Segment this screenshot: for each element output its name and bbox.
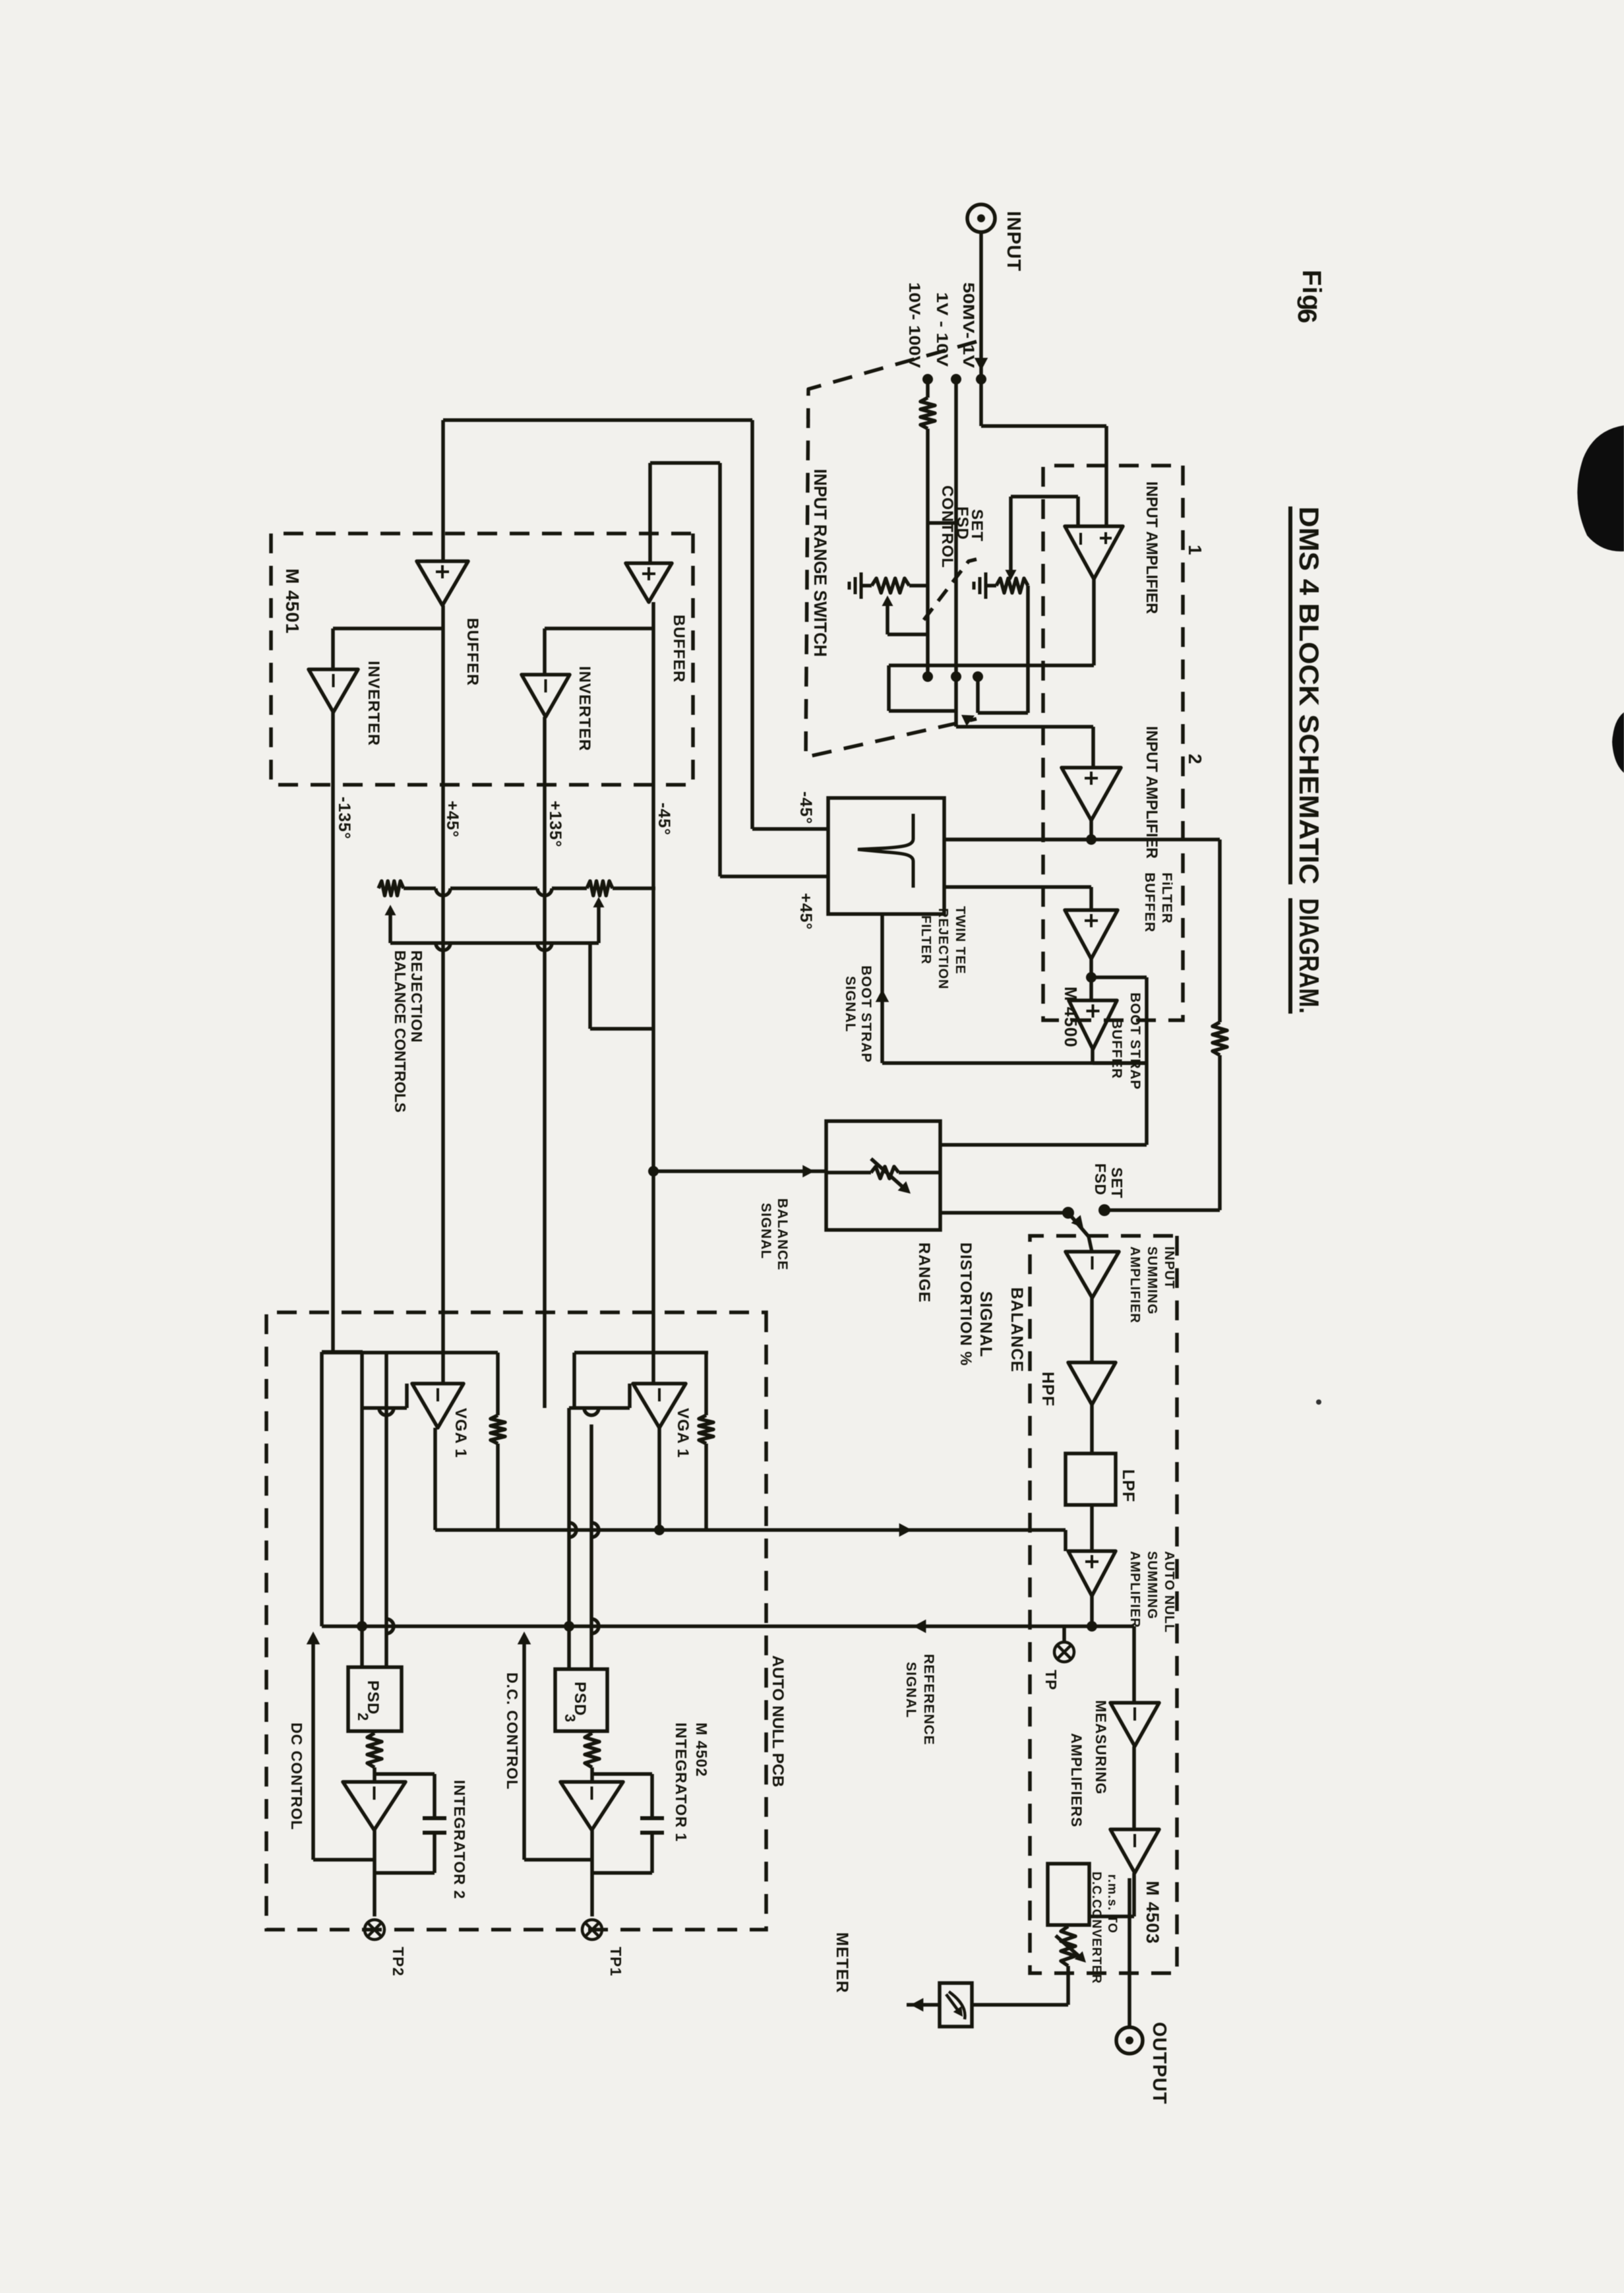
svg-text:+45°: +45° <box>443 801 462 838</box>
svg-text:INPUT: INPUT <box>1003 211 1024 272</box>
wire -135 row <box>331 712 335 1353</box>
svg-text:INVERTER: INVERTER <box>365 661 382 746</box>
wire wiper bus <box>390 941 599 945</box>
wire vga1b loop top <box>704 1353 708 1415</box>
op-amp AUTO NULL SUMMING AMPLIFIER <box>1068 1551 1116 1596</box>
arrow dc control 2 <box>307 1632 320 1644</box>
wire distortion to boot strap rail <box>940 1143 1147 1147</box>
svg-text:2: 2 <box>355 1713 371 1721</box>
wire pot line top <box>613 886 655 890</box>
wire int2 output <box>373 1830 376 1916</box>
scan blob artifact <box>1577 425 1624 551</box>
svg-text:AMPLIFIER: AMPLIFIER <box>1128 1551 1142 1628</box>
wire int1 dc control <box>522 1636 526 1860</box>
svg-text:SUMMING: SUMMING <box>1145 1551 1159 1620</box>
hop wiper bus over +135 <box>537 943 552 950</box>
op-amp INPUT AMPLIFIER 2 <box>1062 768 1121 820</box>
svg-text:BALANCE: BALANCE <box>775 1198 790 1271</box>
svg-text:BUFFER: BUFFER <box>464 618 481 686</box>
wire var resistor top <box>899 1171 940 1175</box>
svg-text:HPF: HPF <box>1038 1372 1057 1407</box>
wire feedback down <box>978 711 1028 715</box>
wire vga1a loop top <box>496 1353 500 1415</box>
ground pot1 <box>861 584 872 588</box>
box RMS TO DC CONVERTER <box>1048 1864 1089 1925</box>
wire pot line mid 1 <box>552 886 587 890</box>
op-amp BUFFER 2 <box>626 563 672 602</box>
svg-text:VGA 1: VGA 1 <box>674 1408 692 1458</box>
wire TP stem <box>1062 1626 1066 1642</box>
svg-text:VGA 1: VGA 1 <box>452 1408 469 1458</box>
dashed linkage switch <box>924 559 977 620</box>
scan speck <box>1316 1399 1321 1405</box>
op-amp INPUT SUMMING AMPLIFIER <box>1066 1252 1119 1298</box>
svg-text:BUFFER: BUFFER <box>1142 872 1157 932</box>
capacitor int1 plate 1 <box>640 1816 664 1820</box>
wire wiper B <box>597 901 601 943</box>
svg-text:INPUT RANGE SWITCH: INPUT RANGE SWITCH <box>810 469 830 657</box>
svg-text:TP1: TP1 <box>607 1947 624 1976</box>
wire int2 cap loop left <box>375 1772 435 1776</box>
wire vga1b fb to balance <box>704 1444 708 1530</box>
svg-text:AMPLIFIER: AMPLIFIER <box>1128 1246 1142 1324</box>
resistor psd2 to integrator2 <box>367 1733 382 1767</box>
contact 50MV-1V deck1 <box>976 374 986 384</box>
title underline 1 <box>1288 506 1292 884</box>
wire into measuring amp 1 <box>1132 1626 1136 1703</box>
wire balance into summing amp <box>1064 1530 1068 1551</box>
hop wiper bus over +45 <box>436 943 450 950</box>
svg-text:AUTO NULL PCB: AUTO NULL PCB <box>769 1655 787 1787</box>
wire psd2 feed lower <box>360 1353 364 1667</box>
wire divider join <box>928 521 956 525</box>
op-amp INVERTER 1 <box>309 669 358 712</box>
wire psd3 feed lower <box>567 1408 571 1669</box>
op-amp BUFFER 1 <box>417 561 468 605</box>
svg-text:INPUT AMPLIFIER: INPUT AMPLIFIER <box>1143 481 1160 614</box>
svg-text:MEASURING: MEASURING <box>1093 1700 1109 1794</box>
box PSD2 <box>348 1667 402 1731</box>
wire vga1b loop bottom <box>572 1353 576 1408</box>
svg-text:+135°: +135° <box>546 801 564 847</box>
svg-text:DIAGRAM.: DIAGRAM. <box>1294 898 1325 1014</box>
wire int2 dc control <box>311 1636 315 1860</box>
wire pot1 wiper <box>886 600 889 634</box>
wire +45 into twin tee <box>720 874 828 878</box>
wire -45 into twin tee <box>752 827 828 831</box>
wire to rms converter <box>1132 1873 1136 1916</box>
arrow switch blade <box>1071 1215 1084 1228</box>
op-amp FILTER BUFFER <box>1065 910 1118 959</box>
svg-text:50MV- 1V: 50MV- 1V <box>959 282 977 368</box>
svg-text:INTEGRATOR 1: INTEGRATOR 1 <box>673 1723 690 1842</box>
potentiometer rejection balance B <box>587 881 613 896</box>
wire 10V-100V rail <box>926 429 930 677</box>
wire input contact to elbow <box>979 379 983 426</box>
wire link riser <box>590 1027 653 1031</box>
switch blade SET FSD <box>1068 1213 1092 1252</box>
junction psd3 feed reference <box>564 1621 574 1632</box>
wire vga1b loop left <box>574 1351 708 1355</box>
op-amp MEASURING AMPLIFIER 1 <box>1110 1703 1159 1746</box>
svg-text:6: 6 <box>1292 309 1321 324</box>
wire +45 riser from buffer2 <box>650 461 720 465</box>
notch response symbol <box>858 814 913 888</box>
wire main bus vertical <box>944 838 1220 841</box>
svg-text:-45°: -45° <box>655 803 673 836</box>
wire inverter2 tap <box>545 627 653 630</box>
wire to deck2 contact a <box>976 677 980 713</box>
svg-text:DISTORTION %: DISTORTION % <box>957 1242 975 1366</box>
wire lpf to auto null summing <box>1090 1505 1094 1551</box>
wire int2 cap loop right <box>375 1871 435 1875</box>
meter needle <box>949 1992 965 2019</box>
wire summing to hpf <box>1090 1298 1094 1362</box>
svg-text:SET: SET <box>1108 1167 1126 1199</box>
junction -45 row tap <box>648 1166 659 1177</box>
dashed box INPUT RANGE SWITCH <box>806 342 977 757</box>
svg-text:PSD: PSD <box>364 1680 382 1715</box>
wire to amp1 - input <box>1076 497 1080 526</box>
arrow meter out <box>911 1998 923 2012</box>
potentiometer rejection balance A <box>378 881 404 896</box>
svg-text:LPF: LPF <box>1119 1469 1137 1502</box>
svg-text:D.C.CONVERTER: D.C.CONVERTER <box>1089 1872 1103 1984</box>
svg-text:DC CONTROL: DC CONTROL <box>288 1723 305 1830</box>
wire vga1a second input <box>405 1384 409 1408</box>
wire vga1b second input drop <box>569 1406 630 1410</box>
svg-text:M 4501: M 4501 <box>282 568 303 634</box>
arrow balance signal <box>899 1523 912 1537</box>
svg-text:1: 1 <box>1185 545 1205 556</box>
wire -45 row <box>651 602 655 1384</box>
svg-text:REFERENCE: REFERENCE <box>921 1654 936 1746</box>
wire int1 cap loop right <box>592 1871 652 1875</box>
wire rail to SET FSD contact <box>1104 1208 1220 1212</box>
wire amp1 output down <box>889 663 1094 667</box>
svg-text:BOOT STRAP: BOOT STRAP <box>858 965 874 1063</box>
wire into integrator1 <box>590 1767 594 1782</box>
wire into inverter2 <box>543 628 547 675</box>
ground pot2 <box>986 584 996 588</box>
svg-text:SIGNAL: SIGNAL <box>843 976 858 1032</box>
contact deck2 c <box>922 671 933 682</box>
wire buffer2 input <box>648 463 652 563</box>
wire BOOT STRAP SIGNAL <box>880 915 884 1063</box>
wiper meter cal <box>1056 1936 1083 1960</box>
svg-text:-45°: -45° <box>797 791 815 824</box>
wire inverter1 tap <box>333 627 443 630</box>
svg-text:10V- 100V: 10V- 100V <box>905 282 923 368</box>
wire vga1a second input drop <box>362 1406 407 1410</box>
arrow into distortion box <box>802 1165 814 1178</box>
junction vga1b output on balance <box>654 1525 665 1535</box>
test point TP1 <box>582 1920 602 1940</box>
svg-text:Fig: Fig <box>1297 270 1326 311</box>
title underline 2 <box>1288 898 1292 1014</box>
svg-text:SUMMING: SUMMING <box>1145 1246 1159 1315</box>
wire buffer1 input <box>441 420 445 561</box>
svg-text:-135°: -135° <box>335 797 353 840</box>
svg-text:2: 2 <box>1185 754 1205 765</box>
connector INPUT jack <box>967 204 995 232</box>
contact deck2 a <box>973 671 983 682</box>
variable resistor distortion <box>871 1167 899 1178</box>
svg-text:TP: TP <box>1042 1670 1060 1690</box>
wire vga1a output <box>433 1428 437 1530</box>
svg-text:AMPLIFIERS: AMPLIFIERS <box>1068 1733 1085 1827</box>
op-amp HPF <box>1068 1362 1116 1405</box>
svg-text:FSD: FSD <box>953 506 971 540</box>
svg-text:TWIN TEE: TWIN TEE <box>953 906 967 975</box>
wire amp2 output <box>1089 820 1093 840</box>
svg-text:SIGNAL: SIGNAL <box>977 1291 995 1357</box>
contact 1V-10V deck1 <box>951 374 961 384</box>
wire hpf to lpf <box>1090 1405 1094 1453</box>
wire var resistor bottom <box>826 1171 871 1175</box>
wire into inverter1 <box>331 628 335 669</box>
box LPF <box>1066 1453 1116 1505</box>
arrow on input wire <box>975 358 988 371</box>
wire balance feed to distortion box <box>653 1169 826 1173</box>
wire into rms box <box>1089 1914 1134 1918</box>
dashed box M4500 <box>1043 466 1183 1020</box>
wire twin tee lower output <box>944 885 1091 889</box>
test point TP2 <box>365 1920 384 1940</box>
svg-text:BUFFER: BUFFER <box>1109 1019 1124 1079</box>
wire int1 cap loop left <box>592 1772 652 1776</box>
box PSD3 <box>555 1669 607 1731</box>
op-amp INTEGRATOR 2 <box>343 1782 406 1830</box>
svg-text:PSD: PSD <box>571 1682 589 1716</box>
svg-text:3: 3 <box>562 1714 578 1723</box>
op-amp BOOT STRAP BUFFER <box>1069 1000 1117 1049</box>
svg-text:TP2: TP2 <box>390 1947 407 1976</box>
op-amp VGA1 b <box>633 1384 686 1428</box>
wire meter out <box>907 2003 940 2007</box>
junction amp2 output bus <box>1086 834 1097 845</box>
svg-text:1V - 10V: 1V - 10V <box>933 292 951 367</box>
svg-text:SIGNAL: SIGNAL <box>903 1662 918 1718</box>
wire into integrator2 <box>373 1767 376 1782</box>
wire meter drop <box>972 2003 1068 2007</box>
wire vga1b second input <box>628 1384 632 1408</box>
wire int2 dc control drop <box>313 1858 375 1862</box>
svg-text:RANGE: RANGE <box>915 1242 933 1303</box>
wire -45 long horizontal <box>750 420 754 829</box>
svg-text:BALANCE CONTROLS: BALANCE CONTROLS <box>392 950 409 1113</box>
potentiometer SET FSD CONTROL 2 <box>996 578 1028 593</box>
wire feedback rail left <box>1218 840 1222 1022</box>
svg-text:REJECTION: REJECTION <box>408 950 425 1043</box>
hop psd3 feed over reference <box>591 1619 599 1634</box>
wire pot line mid 3 <box>404 886 436 890</box>
wire summing output <box>1090 1596 1094 1626</box>
wire psd3 feed upper <box>589 1424 593 1669</box>
wire int2 cap loop top b <box>433 1833 436 1873</box>
dashed box M4503 main chain <box>1030 1236 1177 1973</box>
svg-text:FiLTER: FiLTER <box>1159 872 1174 924</box>
arrow pot1 wiper <box>882 596 893 606</box>
svg-text:r.m.s. TO: r.m.s. TO <box>1105 1874 1119 1934</box>
contact 10V-100V deck1 <box>922 374 933 384</box>
resistor vga1a feedback <box>491 1415 505 1444</box>
wire boot strap output <box>1091 1049 1095 1063</box>
capacitor int1 plate 2 <box>640 1831 664 1835</box>
wire pot line mid 2 <box>450 886 537 890</box>
wire wiper A <box>388 910 392 943</box>
hop psd2 feed over reference <box>386 1619 394 1634</box>
wire reference bottom leg <box>320 1352 324 1626</box>
svg-text:METER: METER <box>833 1932 851 1994</box>
hop pot line over +135 <box>537 888 552 896</box>
wire OUTPUT <box>1128 1878 1131 2028</box>
resistor meter cal <box>1061 1926 1075 1966</box>
box METER <box>940 1983 972 2027</box>
wire +135 row <box>543 717 547 1408</box>
op-amp INVERTER 2 <box>522 675 570 717</box>
junction reference tap <box>1087 1621 1097 1632</box>
wire boot strap junction riser <box>1091 975 1147 979</box>
op-amp MEASURING AMPLIFIER 2 <box>1110 1829 1159 1873</box>
wire filter buffer to boot strap buffer <box>1089 959 1093 1000</box>
dashed box AUTO NULL PCB <box>266 1312 766 1930</box>
arrow reference signal <box>913 1620 926 1634</box>
hop vga1a input over psd2 feed <box>379 1408 394 1415</box>
svg-text:D.C. CONTROL: D.C. CONTROL <box>504 1672 521 1790</box>
wire distortion to switch blade contact <box>940 1211 1068 1215</box>
svg-text:INVERTER: INVERTER <box>576 666 593 751</box>
resistor vga1b feedback <box>699 1415 713 1444</box>
wire riser to amp1 <box>981 424 1106 428</box>
wire psd2 feed upper <box>384 1353 388 1667</box>
wire input to range switch <box>979 232 983 379</box>
wire 10V-100V to resistor <box>926 379 930 398</box>
wire +45 long horizontal <box>718 463 722 876</box>
wire int1 dc control drop <box>524 1858 592 1862</box>
capacitor int2 plate 2 <box>423 1831 446 1835</box>
box DISTORTION % RANGE <box>826 1121 940 1230</box>
svg-text:+45°: +45° <box>797 893 815 930</box>
wire int1 output <box>590 1830 594 1916</box>
connector OUTPUT jack <box>1116 2027 1143 2054</box>
resistor 10V-100V divider <box>920 398 935 429</box>
wire REFERENCE SIGNAL <box>322 1624 1092 1628</box>
wire into filter buffer <box>1089 887 1093 910</box>
svg-text:M 4503: M 4503 <box>1143 1881 1162 1944</box>
box TWIN TEE REJECTION FILTER <box>828 798 944 914</box>
contact deck2 b <box>951 671 961 682</box>
arrow range switch wiper <box>961 715 975 726</box>
arrow dc control 1 <box>518 1632 531 1644</box>
svg-text:CONTROL: CONTROL <box>938 485 956 568</box>
svg-text:BOOT STRAP: BOOT STRAP <box>1128 993 1143 1090</box>
hop pot line over +45 <box>436 888 450 896</box>
svg-text:DMS 4 BLOCK SCHEMATIC: DMS 4 BLOCK SCHEMATIC <box>1294 506 1325 884</box>
op-amp INTEGRATOR 1 <box>560 1782 623 1830</box>
svg-text:BUFFER: BUFFER <box>670 615 688 683</box>
junction psd2 feed reference <box>357 1621 367 1632</box>
wiper arrow distortion <box>871 1159 907 1191</box>
capacitor int2 plate 1 <box>423 1816 446 1820</box>
hop psd3 feed over balance <box>591 1523 599 1537</box>
wire up to measuring amps <box>1092 1624 1134 1628</box>
hop psd3 feed over balance 2 <box>569 1523 576 1537</box>
op-amp VGA1 a <box>412 1384 464 1428</box>
wire deck to amp2 riser <box>956 725 1093 729</box>
svg-text:FSD: FSD <box>1092 1163 1109 1196</box>
op-amp INPUT AMPLIFIER 1 <box>1065 526 1123 579</box>
wire amp1 output <box>1092 579 1096 665</box>
wire -45 riser from buffer1 <box>443 418 752 422</box>
wire BALANCE SIGNAL <box>435 1528 1066 1532</box>
wire 1V-10V rail to amp2 elbow <box>954 379 958 727</box>
wire amp1 output up to deck <box>889 709 956 713</box>
junction boot strap tap <box>1086 972 1097 983</box>
wire into amp2 <box>1091 727 1095 768</box>
wire wiper bus to -45 link <box>588 943 592 1029</box>
wire pot2 top feedback <box>1026 586 1030 713</box>
wire int2 cap loop top a <box>433 1774 436 1818</box>
wire vga1a fb to balance <box>496 1444 500 1530</box>
wire boot strap drop <box>882 1061 1147 1065</box>
svg-text:INTEGRATOR 2: INTEGRATOR 2 <box>451 1780 468 1899</box>
dashed box M4501 <box>271 534 693 785</box>
wire pot1 wiper riser <box>887 632 928 636</box>
wire into amp1 + input <box>1104 426 1108 526</box>
wire int1 cap loop top b <box>650 1833 654 1873</box>
test point TP <box>1054 1642 1074 1662</box>
wire feedback rail right <box>1218 1055 1222 1210</box>
contact SET FSD lower <box>1062 1207 1074 1219</box>
svg-text:AUTO NULL: AUTO NULL <box>1162 1551 1176 1633</box>
hop vga1b input over psd3 feed <box>584 1408 599 1415</box>
svg-text:INPUT: INPUT <box>1162 1246 1176 1289</box>
svg-text:SIGNAL: SIGNAL <box>758 1203 773 1259</box>
wire to meter <box>1066 1966 1070 2005</box>
wire - input riser <box>1011 495 1078 499</box>
svg-text:M 4502: M 4502 <box>693 1723 710 1777</box>
svg-text:REJECTION: REJECTION <box>936 908 950 989</box>
arrow wiper A <box>385 905 396 915</box>
svg-text:BALANCE: BALANCE <box>1007 1287 1026 1372</box>
wire boot strap rail <box>1145 977 1149 1145</box>
wire vga1a loop left <box>322 1351 498 1355</box>
resistor psd3 to integrator1 <box>585 1733 599 1767</box>
arrow wiper B <box>593 897 605 907</box>
scan blob small <box>1612 712 1624 773</box>
contact SET FSD upper <box>1098 1204 1110 1216</box>
wire vga1b output <box>657 1428 661 1530</box>
wire int1 cap loop top a <box>650 1774 654 1818</box>
wire +45 row <box>441 605 445 1384</box>
resistor feedback rail <box>1213 1022 1227 1055</box>
wire amp1 output right <box>887 665 891 711</box>
wire pot2 wiper <box>1009 497 1013 575</box>
wire to pot1 <box>909 584 928 588</box>
potentiometer SET FSD CONTROL 1 <box>872 578 909 593</box>
svg-text:OUTPUT: OUTPUT <box>1149 2022 1170 2104</box>
wire between measuring amps <box>1132 1746 1136 1829</box>
arrow pot2 wiper <box>1006 570 1017 580</box>
svg-text:FILTER: FILTER <box>918 915 933 965</box>
arrow boot strap signal <box>876 989 889 1002</box>
